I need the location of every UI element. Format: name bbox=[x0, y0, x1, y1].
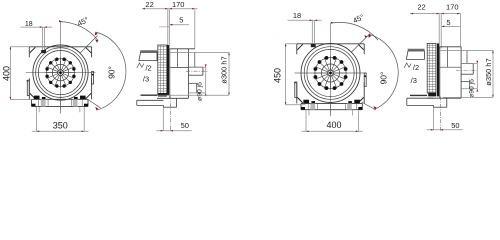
svg-text:350: 350 bbox=[53, 120, 68, 130]
right front view: housing left edge segments bbox=[296, 44, 298, 55]
left side: dim 50 dimension line bbox=[156, 130, 191, 132]
svg-text:/3: /3 bbox=[143, 75, 149, 84]
left dim 350: dimension line bbox=[32, 130, 89, 132]
right dim 400: extension lines bbox=[305, 110, 307, 131]
left front view: inner rim circle bbox=[38, 51, 82, 95]
right base: hatch bands bbox=[310, 103, 315, 109]
left front view: base plate bbox=[32, 98, 89, 100]
left side: spigot top edge / dim o300 extension bbox=[170, 52, 229, 54]
left dim 45deg: arc bbox=[60, 22, 98, 41]
left front view: bolt dots bbox=[72, 75, 75, 78]
right front: side lug left bbox=[295, 82, 297, 98]
right side: faceplate hatched column bbox=[427, 43, 436, 93]
right dim 45deg: arc bbox=[332, 22, 378, 40]
svg-text:22: 22 bbox=[145, 0, 153, 9]
left front view: radial spokes bbox=[45, 58, 75, 88]
left side: dim 5 line bbox=[171, 24, 190, 26]
right dim 18: dimension line bbox=[288, 19, 322, 21]
right front: diagonal down-right bbox=[362, 102, 376, 110]
right front view: vertical centerline bbox=[330, 23, 332, 116]
left side: right extension of 170 bbox=[194, 9, 196, 49]
left front: t-slot mark at rim bbox=[41, 50, 46, 53]
svg-text:5: 5 bbox=[446, 18, 450, 27]
right side: dim o90 extension lines bbox=[461, 63, 477, 65]
left side: inner vertical bbox=[176, 49, 178, 68]
right side: black blob at column bottom bbox=[428, 93, 436, 97]
right front view: hub dot bbox=[329, 72, 332, 75]
right side: dim o90 dimension line bbox=[476, 64, 478, 89]
right side: base lip bbox=[407, 97, 434, 99]
left side: leader zigzag bbox=[137, 63, 144, 68]
right front view: bolt dots bbox=[344, 75, 348, 79]
right front view: bolt circle ring bbox=[315, 57, 346, 88]
left side: body outline bbox=[169, 49, 171, 99]
svg-text:50: 50 bbox=[181, 121, 189, 130]
left dim 45deg: arrowheads bbox=[59, 20, 62, 22]
left base centerline below bbox=[60, 107, 62, 114]
right base: stub lines below bbox=[308, 110, 310, 116]
left side: top dimension line 22/170 bbox=[142, 8, 197, 10]
right dim 450: dimension line bbox=[285, 44, 287, 105]
right side: clamp knob top bbox=[408, 49, 425, 51]
svg-text:5: 5 bbox=[179, 16, 183, 25]
left side: lower step block bbox=[189, 82, 197, 84]
left dim 350: arrowheads bbox=[37, 131, 40, 133]
left front view: middle rim circle bbox=[36, 48, 86, 98]
right front: side lug right bbox=[364, 73, 366, 87]
left front view: housing top edge bbox=[29, 46, 91, 48]
left side: dim o300 bottom extension bbox=[157, 94, 229, 96]
svg-text:400: 400 bbox=[326, 120, 341, 130]
right side: spigot top edge / dim o350 extension bbox=[440, 50, 493, 52]
svg-text:50: 50 bbox=[451, 121, 459, 130]
right side: dim 5 line bbox=[442, 25, 460, 27]
right base centerline below bbox=[330, 110, 332, 116]
right dim 400: dimension line bbox=[302, 130, 363, 132]
right side: leader zigzag bbox=[404, 63, 411, 68]
left side: output shaft stub bbox=[189, 66, 203, 68]
right front view: inner rim circle bbox=[307, 49, 354, 96]
left base: inner vertical lines bbox=[38, 99, 40, 106]
left front: side lug right bbox=[92, 72, 94, 85]
left front view: corner chamfers bbox=[30, 47, 36, 53]
svg-text:18: 18 bbox=[293, 11, 301, 20]
svg-text:ø350 h7: ø350 h7 bbox=[484, 58, 493, 86]
left side: extension pair bbox=[167, 9, 169, 50]
svg-text:/2: /2 bbox=[413, 63, 419, 72]
right front view: small inner circle bbox=[322, 64, 340, 82]
svg-text:ø300 h7: ø300 h7 bbox=[219, 56, 228, 84]
svg-text:ø90 j6: ø90 j6 bbox=[469, 79, 476, 98]
right front view: outer faceplate circle bbox=[301, 44, 360, 103]
left side: top dim arrowheads bbox=[142, 8, 145, 10]
left front: side lug left bbox=[27, 80, 29, 95]
left dim 18: arrowheads bbox=[40, 26, 43, 28]
right side: extension pair bbox=[438, 14, 440, 49]
left front view: housing right edge segments bbox=[91, 47, 93, 58]
right dim 90deg: arc bbox=[369, 34, 398, 109]
right side: body outline bbox=[439, 47, 441, 98]
left dim 18: dimension line bbox=[21, 26, 53, 28]
left dim 400: extension lines bbox=[10, 46, 29, 48]
right side: inner horizontal bbox=[440, 66, 461, 68]
left side: dark line under knob bbox=[141, 94, 158, 96]
right front view: base plate bbox=[301, 102, 362, 104]
right base: clamp lugs on top bbox=[303, 100, 309, 104]
right side: right extension of 170 bbox=[460, 14, 462, 47]
svg-text:170: 170 bbox=[172, 0, 185, 9]
left dim 90deg: arrowheads bbox=[95, 32, 98, 35]
left base: stub lines below bbox=[38, 107, 40, 113]
right front view: middle rim circle bbox=[304, 47, 357, 100]
right base: inner vertical lines bbox=[307, 103, 309, 109]
right front view: housing right edge segments bbox=[363, 44, 365, 55]
left dim 400: dimension line bbox=[9, 47, 11, 100]
left front view: small inner circle bbox=[52, 64, 68, 80]
svg-text:ø90 j6: ø90 j6 bbox=[196, 82, 203, 101]
right side: inner vertical bbox=[446, 47, 448, 67]
right side: output shaft stub bbox=[461, 63, 473, 65]
svg-text:90°: 90° bbox=[378, 72, 388, 85]
svg-text:400: 400 bbox=[1, 66, 11, 81]
right side: dark line under knob bbox=[410, 94, 427, 96]
right dim 18: extension lines bbox=[311, 20, 313, 44]
left side: faceplate mounting face thick line bbox=[167, 45, 169, 95]
left side: dim 50 extension lines bbox=[162, 107, 164, 130]
right front: diagonal 45 up-right bbox=[351, 34, 370, 53]
right dim 18: arrowheads bbox=[310, 20, 313, 22]
right side: dim 50 extension lines bbox=[433, 107, 435, 130]
right front view: radial spokes bbox=[314, 56, 348, 90]
left side: shaft centerline bbox=[186, 70, 208, 72]
left side: dim o300 dimension line bbox=[228, 53, 230, 96]
left base: clamp lugs on top bbox=[34, 96, 40, 100]
right side: dim o350 dimension line bbox=[492, 51, 494, 98]
right side: dim o350 bottom extension bbox=[443, 96, 493, 98]
right base: corner brackets bbox=[301, 107, 305, 110]
left front view: outer faceplate circle bbox=[33, 45, 88, 100]
left side: black blob at column bottom bbox=[158, 93, 167, 97]
left base: hatch bands bbox=[41, 99, 46, 106]
right front view: housing top edge bbox=[297, 43, 364, 45]
right dim 45deg: arrowheads bbox=[331, 22, 334, 24]
left side: base lip bbox=[137, 99, 164, 101]
right dim 450: extension lines bbox=[286, 43, 297, 45]
left front: diagonal down-right bbox=[88, 100, 101, 108]
right front view: horizontal centerline bbox=[295, 72, 367, 74]
left side: inner horizontal bbox=[170, 66, 189, 68]
left front view: hub dot bbox=[59, 71, 62, 74]
left side: spigot back face upper bbox=[194, 53, 196, 68]
right side: lower step block bbox=[461, 81, 469, 83]
left side: dim o90 extension lines bbox=[189, 66, 206, 68]
left dim 350: extension lines bbox=[36, 107, 38, 132]
left front view: hub circle bbox=[58, 70, 64, 76]
svg-text:90°: 90° bbox=[107, 66, 117, 79]
right front view: hub circle bbox=[328, 70, 334, 76]
right side: faceplate mounting face thick line bbox=[437, 43, 439, 96]
svg-text:170: 170 bbox=[446, 3, 459, 12]
left dim 400: arrowheads bbox=[10, 47, 12, 50]
right dim 90deg: arrowheads bbox=[368, 34, 371, 37]
svg-text:/3: /3 bbox=[411, 76, 417, 85]
left front view: vertical centerline bbox=[60, 22, 62, 114]
left side: clamp knob top bbox=[140, 50, 157, 52]
left front: diagonal 45 up-right bbox=[80, 36, 98, 54]
right side: spigot back face upper bbox=[466, 51, 468, 64]
svg-text:/2: /2 bbox=[145, 63, 151, 72]
right front view: corner chamfers bbox=[297, 44, 303, 50]
right side: shaft centerline bbox=[456, 70, 479, 72]
svg-text:450: 450 bbox=[273, 68, 283, 83]
left dim 90deg: arc bbox=[96, 32, 126, 110]
right dim 400: arrowheads bbox=[306, 131, 309, 133]
right front: t-slot mark at rim bbox=[311, 44, 316, 47]
left dim 18: extension lines bbox=[41, 27, 43, 50]
left front view: horizontal centerline bbox=[26, 72, 96, 74]
left front view: bolt circle ring bbox=[47, 59, 75, 87]
right side: clamp knob body bbox=[406, 51, 424, 59]
right dim 450: arrowheads bbox=[285, 44, 287, 47]
svg-text:22: 22 bbox=[417, 3, 425, 12]
right side: dim 50 dimension line bbox=[427, 129, 463, 131]
right side: top dim arrowheads bbox=[411, 13, 414, 15]
left base: corner brackets bbox=[32, 104, 36, 107]
right side: top dimension line 22/170 bbox=[410, 13, 461, 15]
left front view: housing left edge segments bbox=[28, 47, 30, 58]
left side: clamp knob body bbox=[139, 52, 157, 60]
left side: faceplate hatched column bbox=[158, 45, 167, 95]
left side: dim o90 dimension line bbox=[205, 67, 207, 93]
